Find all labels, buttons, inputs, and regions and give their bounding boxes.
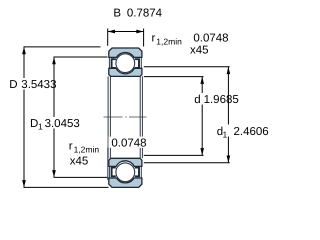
svg-text:3.5433: 3.5433: [21, 79, 56, 91]
dimension d1 arrow top: [227, 67, 231, 74]
dimension d1 line: [227, 67, 229, 163]
dimension d line: [201, 77, 203, 156]
dimension d extension line top: [144, 76, 204, 78]
outer ring bottom section: [109, 178, 142, 187]
cage rivet top-right: [135, 59, 139, 68]
dimension d arrow top: [200, 77, 204, 84]
dimension B arrow left: [108, 30, 115, 34]
label 0.0748 white backing (bore value box): [108, 137, 143, 148]
dimension B extension line left: [107, 29, 109, 46]
svg-text:1: 1: [223, 129, 228, 139]
dimension D extension line top: [24, 46, 101, 48]
r value leader line to bottom-left chamfer: [107, 148, 109, 181]
ball top: [116, 54, 135, 73]
svg-text:0.0748: 0.0748: [111, 138, 146, 150]
outer ring top section: [109, 48, 142, 57]
dimension d1 extension line top: [144, 66, 230, 68]
svg-text:r: r: [69, 141, 73, 153]
dimension d1 arrow bottom: [227, 156, 231, 163]
bearing side-face edge lines in cage gap: [109, 58, 141, 178]
label d1 white backing: [215, 125, 268, 137]
bore silhouette double lines right: [140, 76, 142, 158]
inner ring bottom section: [109, 158, 142, 166]
svg-text:3.0453: 3.0453: [45, 118, 80, 130]
dimension D1 extension line bottom: [54, 176, 108, 178]
dimension d arrow bottom: [200, 148, 204, 155]
svg-text:x45: x45: [70, 155, 89, 167]
dimension D1 arrow bottom: [52, 170, 56, 177]
svg-text:0.7874: 0.7874: [127, 8, 163, 20]
svg-text:1,2min: 1,2min: [156, 36, 182, 46]
cage rivet bottom-left: [112, 168, 116, 177]
svg-text:0.0748: 0.0748: [193, 33, 228, 45]
dimension D extension line bottom: [24, 186, 109, 188]
dimension d extension line bottom: [144, 154, 204, 156]
svg-text:1: 1: [38, 122, 43, 132]
dimension d1 extension line bottom: [144, 162, 230, 164]
centerline axis: [104, 116, 147, 118]
dimension D1 arrow top: [52, 57, 56, 64]
cage rivet top-left: [112, 59, 116, 68]
ball bottom: [116, 163, 135, 182]
dimension D line: [23, 47, 25, 188]
svg-text:2.4606: 2.4606: [234, 126, 269, 138]
label D white backing: [7, 78, 58, 90]
dimension B arrow right: [136, 30, 143, 34]
svg-text:d: d: [194, 94, 200, 106]
bore silhouette double lines left: [108, 76, 110, 158]
svg-text:D: D: [9, 79, 17, 91]
inner ring top section: [109, 68, 142, 76]
label D1 white backing: [29, 117, 86, 129]
dimension D arrow bottom: [22, 180, 26, 187]
svg-text:r: r: [152, 33, 156, 45]
cage rivet bottom-right: [135, 168, 139, 177]
dimension D1 line: [53, 57, 55, 177]
svg-text:B: B: [113, 8, 121, 20]
dimension B extension line right: [143, 29, 145, 47]
svg-text:1,2min: 1,2min: [74, 144, 100, 154]
svg-text:1.9685: 1.9685: [204, 94, 239, 106]
label d white backing: [193, 93, 244, 105]
dimension B line: [108, 31, 144, 33]
dimension D arrow top: [22, 47, 26, 54]
dimension D1 extension line top: [54, 56, 108, 58]
svg-text:x45: x45: [190, 44, 209, 56]
